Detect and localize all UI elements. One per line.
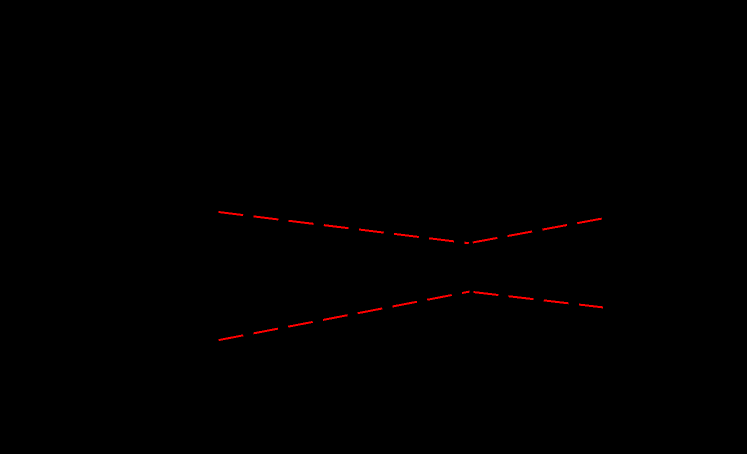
upper confidence band, left segment: [218, 212, 468, 243]
upper confidence band, right segment: [469, 219, 602, 244]
lower confidence band, right segment: [470, 292, 604, 308]
lower confidence band, left segment: [219, 292, 470, 341]
